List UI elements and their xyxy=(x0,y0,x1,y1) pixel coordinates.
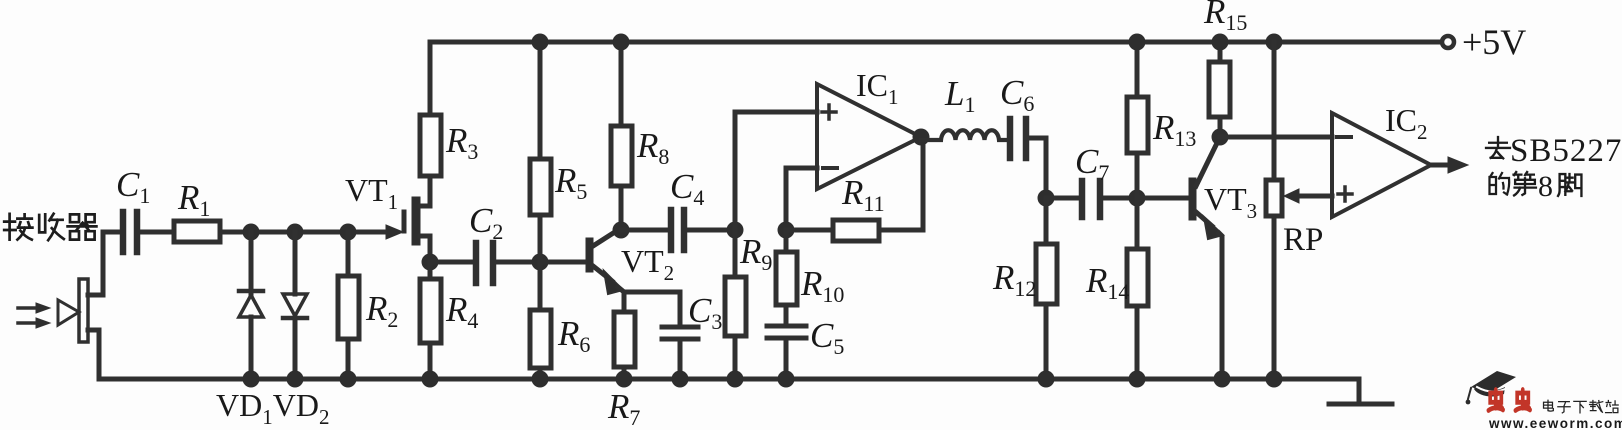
wire: bottom ground rail xyxy=(99,377,1359,382)
svg-text:R2: R2 xyxy=(365,289,398,332)
node: junction R1/VD1 xyxy=(243,224,260,241)
resistor R12 xyxy=(1036,198,1057,379)
capacitor C4 xyxy=(621,210,735,250)
resistor R4 xyxy=(420,262,441,379)
label 接收器 (receiver) xyxy=(4,214,96,240)
resistor R7 xyxy=(614,292,635,379)
capacitor C6 xyxy=(1010,119,1046,198)
+5V terminal circle xyxy=(1442,36,1454,48)
svg-text:R4: R4 xyxy=(445,290,478,333)
svg-text:R14: R14 xyxy=(1085,261,1129,304)
node: rail junction VD1 xyxy=(243,371,260,388)
label 的第...脚 (pin 8) xyxy=(1490,172,1582,196)
diode VD2 xyxy=(283,232,307,379)
op-amp IC1 xyxy=(817,84,921,189)
node: top rail RP xyxy=(1266,34,1283,51)
capacitor C2 xyxy=(430,243,540,283)
resistor R1 xyxy=(174,221,220,242)
svg-text:IC2: IC2 xyxy=(1385,102,1428,144)
svg-text:8: 8 xyxy=(1538,170,1553,203)
resistor R14 xyxy=(1127,198,1148,379)
node: IC1 output xyxy=(913,129,930,146)
node: top rail R13 xyxy=(1129,34,1146,51)
capacitor C7 xyxy=(1046,181,1137,217)
svg-text:R10: R10 xyxy=(800,264,844,307)
node: rail junction RP xyxy=(1266,371,1283,388)
node: rail junction R9 xyxy=(727,371,744,388)
node: rail junction R6 xyxy=(532,371,549,388)
svg-text:RP: RP xyxy=(1283,222,1323,258)
watermark graduation cap icon xyxy=(1466,371,1516,404)
svg-text:R9: R9 xyxy=(739,232,772,275)
svg-text:VD1VD2: VD1VD2 xyxy=(216,387,329,429)
svg-text:C2: C2 xyxy=(469,201,503,244)
svg-text:C5: C5 xyxy=(810,316,844,359)
resistor R15 xyxy=(1209,42,1230,137)
node: C6/C7/R12 junction xyxy=(1038,190,1055,207)
resistor R3 xyxy=(420,42,441,180)
node: top rail R5 xyxy=(532,34,549,51)
node: junction VD2 top xyxy=(287,224,304,241)
node: junction R2 top xyxy=(340,224,357,241)
label 去 (to) xyxy=(1486,137,1510,158)
node: rail junction R7 xyxy=(616,371,633,388)
resistor R8 xyxy=(611,42,632,230)
svg-text:C6: C6 xyxy=(1000,73,1034,116)
node: top rail R15 xyxy=(1212,34,1229,51)
watermark 电子下载站 text xyxy=(1544,400,1619,413)
capacitor C5 xyxy=(767,326,806,379)
node: top rail R8 xyxy=(613,34,630,51)
svg-text:R5: R5 xyxy=(554,161,587,204)
svg-text:+5V: +5V xyxy=(1462,22,1526,62)
watermark 虫虫 logo text xyxy=(1488,390,1530,411)
svg-text:R11: R11 xyxy=(841,173,885,216)
node: rail junction R14 xyxy=(1129,371,1146,388)
diode VD1 xyxy=(239,232,263,379)
svg-text:L1: L1 xyxy=(944,74,975,117)
wire: IC1 - input to R10/R11 junction xyxy=(786,168,817,230)
node: R15/VT3 collector junction xyxy=(1212,129,1229,146)
capacitor C1 xyxy=(123,212,137,252)
svg-text:C3: C3 xyxy=(688,291,722,334)
potentiometer RP xyxy=(1266,42,1332,379)
wire: R1 to VT1 base with arrow xyxy=(220,225,403,239)
node: rail junction C3 xyxy=(672,371,689,388)
resistor R6 xyxy=(530,262,551,379)
svg-text:C4: C4 xyxy=(670,167,704,210)
node: C4/R9/IC1+ junction xyxy=(727,222,744,239)
resistor R5 xyxy=(530,42,551,262)
wire: VT2 emitter to C3 xyxy=(624,292,680,325)
node: VT2 collector junction xyxy=(613,222,630,239)
svg-text:R1: R1 xyxy=(177,178,210,221)
svg-text:C7: C7 xyxy=(1075,142,1109,185)
resistor R11 with feedback wires xyxy=(786,140,923,241)
node: rail junction VD2 xyxy=(287,371,304,388)
svg-text:VT2: VT2 xyxy=(621,243,674,285)
node: rail junction R12 xyxy=(1038,371,1055,388)
op-amp IC2 xyxy=(1332,113,1468,217)
svg-text:VT3: VT3 xyxy=(1204,181,1257,223)
node: R10/R11/IC1- junction xyxy=(778,222,795,239)
svg-text:R3: R3 xyxy=(445,121,478,164)
svg-text:R12: R12 xyxy=(992,258,1036,301)
resistor R10 xyxy=(776,230,797,325)
svg-text:R7: R7 xyxy=(607,387,640,430)
svg-text:R13: R13 xyxy=(1152,108,1196,151)
ground symbol xyxy=(1329,379,1392,404)
resistor R13 xyxy=(1127,42,1148,198)
svg-text:R15: R15 xyxy=(1203,0,1247,35)
svg-text:R6: R6 xyxy=(557,314,590,357)
svg-text:R8: R8 xyxy=(636,126,669,169)
node: rail junction C5 xyxy=(778,371,795,388)
resistor R9 xyxy=(725,230,746,379)
wire: receiver emitter to ground rail xyxy=(88,330,99,379)
wire: C1 to R1 xyxy=(139,230,174,235)
capacitor C3 xyxy=(662,327,698,379)
node: rail junction VT3 emitter xyxy=(1214,371,1231,388)
wire: junction to IC1 + input xyxy=(735,112,817,230)
transistor VT1 xyxy=(402,180,430,262)
inductor L1 xyxy=(921,130,1007,140)
transistor VT3 xyxy=(1137,141,1223,379)
node: rail junction R2 xyxy=(340,371,357,388)
svg-text:SB5227: SB5227 xyxy=(1510,133,1622,169)
IR receiver phototransistor xyxy=(18,279,88,342)
svg-text:VT1: VT1 xyxy=(345,172,398,214)
wire: +5V top rail xyxy=(430,40,1441,45)
wire: junction to IC2 - input xyxy=(1220,135,1332,140)
node: VT1 emitter junction xyxy=(422,254,439,271)
node: VT2 base junction xyxy=(532,254,549,271)
wire: receiver collector to C1 xyxy=(88,232,120,295)
resistor R2 xyxy=(338,232,359,379)
node: rail junction R4 xyxy=(422,371,439,388)
svg-text:IC1: IC1 xyxy=(856,67,899,109)
svg-text:C1: C1 xyxy=(116,165,150,208)
node: C7/R13/R14/VT3 base junction xyxy=(1129,190,1146,207)
svg-text:www.eeworm.com: www.eeworm.com xyxy=(1488,416,1622,430)
transistor VT2 xyxy=(540,230,624,294)
